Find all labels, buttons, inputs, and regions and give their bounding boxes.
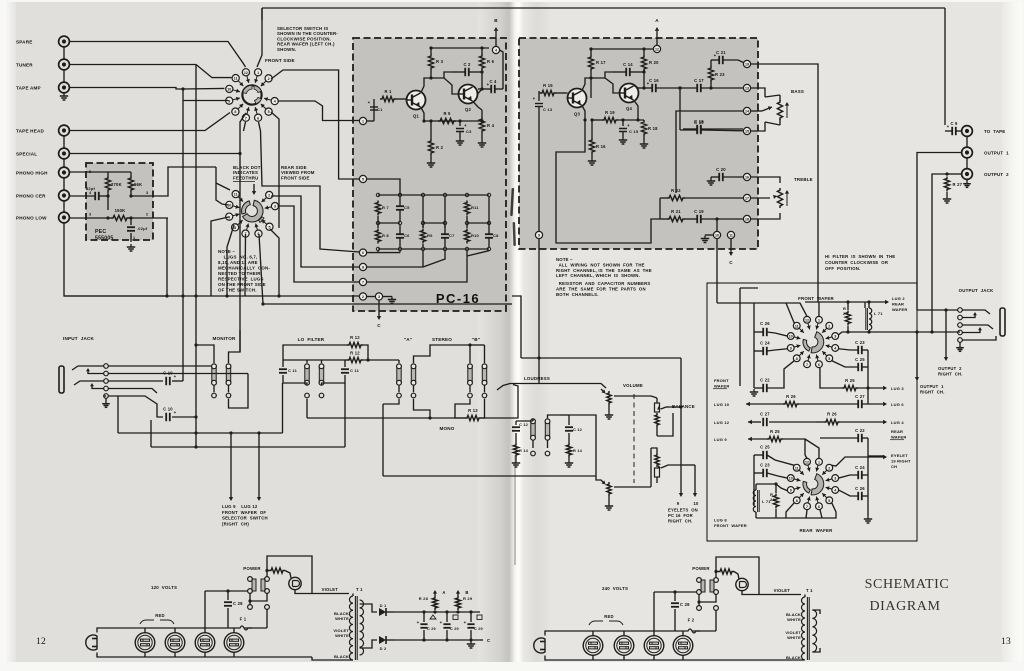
label OUTPUT 1 RIGHT CH arrow bbox=[916, 332, 918, 378]
ac plug right bbox=[534, 638, 545, 653]
svg-text:C 23: C 23 bbox=[855, 340, 865, 345]
bus y296 right page stub bbox=[512, 296, 521, 358]
capacitor C22 row to eyelet bbox=[832, 457, 884, 466]
svg-text:LUG 6: LUG 6 bbox=[891, 402, 904, 407]
capacitor C5 bbox=[396, 205, 404, 207]
svg-text:2: 2 bbox=[362, 295, 364, 299]
wire rear lug3 to PC-16 lug7 bbox=[278, 206, 360, 282]
wire rear lug6 down bbox=[259, 234, 263, 304]
wire lug4 to C23 bbox=[839, 349, 858, 350]
svg-text:C 25: C 25 bbox=[855, 357, 865, 362]
wire power loop left bbox=[267, 556, 312, 594]
svg-text:OUTPUT 1: OUTPUT 1 bbox=[920, 384, 944, 389]
svg-text:FRONT WAFER: FRONT WAFER bbox=[798, 296, 834, 301]
wire pin2 exit right down to bus bbox=[166, 218, 168, 296]
resistor R15 bbox=[540, 90, 556, 95]
svg-text:C8: C8 bbox=[493, 233, 499, 238]
capacitor C29 c bbox=[467, 623, 474, 625]
svg-text:PC 16 FOR: PC 16 FOR bbox=[668, 513, 693, 518]
svg-text:F 2: F 2 bbox=[688, 618, 695, 623]
svg-text:A: A bbox=[442, 590, 445, 595]
svg-text:SHOWN.: SHOWN. bbox=[277, 47, 296, 52]
wire lug14 treble feed column bbox=[676, 111, 743, 193]
wire selector lug6 stub bbox=[259, 122, 261, 131]
svg-text:PC-16: PC-16 bbox=[436, 291, 480, 306]
capacitor C14 bbox=[625, 68, 627, 76]
wire rear lug11 up bbox=[216, 183, 230, 190]
loudness extra contacts bbox=[531, 451, 536, 456]
wire Q4 collector to C16 bbox=[634, 86, 638, 89]
svg-text:6: 6 bbox=[257, 116, 259, 120]
svg-text:+: + bbox=[464, 620, 467, 625]
rectifier bus bottom bbox=[394, 639, 480, 641]
wire TAPE HEAD row bbox=[70, 113, 230, 131]
PC-16 circuit board region (left page) bbox=[353, 38, 506, 311]
bus y304 fold crossing bbox=[506, 303, 512, 305]
ground volume lower bbox=[608, 503, 610, 506]
svg-text:NECTED TO THEIR: NECTED TO THEIR bbox=[218, 271, 261, 276]
wire lug 9 left bbox=[183, 100, 229, 102]
capacitor C26 lower bbox=[857, 492, 859, 500]
svg-text:1: 1 bbox=[818, 318, 820, 322]
PC-16 circuit board region (right page) bbox=[519, 38, 758, 249]
svg-text:R 26: R 26 bbox=[786, 394, 796, 399]
wire switch bottoms A bbox=[398, 385, 400, 392]
svg-text:C6: C6 bbox=[404, 233, 410, 238]
svg-text:INPUT JACK: INPUT JACK bbox=[63, 336, 95, 341]
svg-text:D 1: D 1 bbox=[380, 603, 387, 608]
capacitor C23 lower bbox=[762, 469, 764, 477]
svg-text:.02μf: .02μf bbox=[137, 226, 148, 231]
wire lo filter frame bbox=[283, 359, 345, 361]
wire Q3 base from R15 bbox=[538, 91, 540, 93]
wire TUNER to selector bbox=[70, 65, 231, 78]
rectifier bus top bbox=[394, 611, 480, 613]
svg-text:FRONT SIDE: FRONT SIDE bbox=[265, 58, 295, 63]
svg-text:C 14: C 14 bbox=[623, 62, 633, 67]
jack OUTPUT 2 bbox=[962, 169, 973, 180]
wire Q2 emitter to R4 bbox=[473, 102, 482, 111]
capacitor C8 bbox=[485, 233, 493, 235]
svg-text:OUTPUT 2: OUTPUT 2 bbox=[984, 172, 1009, 177]
wire input row3 with C10 bbox=[108, 380, 163, 382]
svg-text:3: 3 bbox=[378, 295, 380, 299]
resistor power loop right bbox=[718, 569, 734, 574]
svg-text:FEEDTHRU: FEEDTHRU bbox=[233, 175, 259, 180]
wire lug9 column bbox=[538, 118, 540, 231]
selector front lug 7 bbox=[247, 107, 249, 114]
input jack contacts bbox=[104, 364, 109, 369]
rc network mid rail 1 bbox=[378, 222, 400, 224]
ground below TAPE AMP bbox=[63, 93, 65, 96]
jack PHONO CER bbox=[59, 190, 70, 201]
svg-text:REAR WAFER: REAR WAFER bbox=[800, 528, 834, 533]
wire monitor bottoms bbox=[213, 385, 215, 392]
wire R5 row bbox=[424, 120, 482, 122]
tube V5 bbox=[583, 636, 603, 656]
svg-text:4: 4 bbox=[834, 489, 836, 493]
svg-text:C 24: C 24 bbox=[760, 341, 770, 346]
svg-text:+: + bbox=[947, 124, 950, 129]
capacitor .02uf bbox=[127, 226, 135, 228]
svg-text:RESPECTIVE LUGS: RESPECTIVE LUGS bbox=[218, 277, 264, 282]
PEC 555005 module box bbox=[86, 163, 153, 240]
svg-text:WHITE: WHITE bbox=[787, 617, 801, 622]
svg-text:C 29: C 29 bbox=[427, 627, 436, 631]
balance pot lower bbox=[655, 453, 659, 467]
resistor R27 bbox=[947, 173, 962, 175]
row R26 lower to LUG 4 bbox=[824, 419, 840, 424]
wire rear lug9 left down bbox=[211, 217, 229, 296]
svg-text:11: 11 bbox=[234, 193, 238, 197]
capacitor 82pf bbox=[94, 192, 96, 200]
jack PHONO HIGH bbox=[59, 167, 70, 178]
wire lug9 down to loudness rail bbox=[538, 239, 540, 358]
svg-text:COUNTER CLOCKWISE OR: COUNTER CLOCKWISE OR bbox=[825, 260, 889, 265]
wire tube top bus left bbox=[97, 628, 236, 633]
svg-text:WHITE: WHITE bbox=[787, 635, 801, 640]
svg-text:13: 13 bbox=[1001, 637, 1011, 647]
capacitor C24 upper bbox=[762, 347, 764, 355]
svg-text:LUG 9: LUG 9 bbox=[714, 437, 727, 442]
selector rear lug 3 bbox=[265, 207, 272, 208]
selector front lug 10 bbox=[233, 90, 240, 92]
svg-text:12: 12 bbox=[805, 460, 809, 464]
svg-text:TAPE HEAD: TAPE HEAD bbox=[16, 129, 44, 134]
svg-text:SELECTOR SWITCH: SELECTOR SWITCH bbox=[222, 516, 268, 521]
svg-text:9: 9 bbox=[790, 347, 792, 351]
ground C22 bbox=[753, 389, 755, 392]
wire balance top from rail bbox=[669, 358, 681, 407]
wire SPECIAL row bbox=[70, 113, 246, 154]
wafer lug 8 bbox=[799, 493, 803, 497]
svg-text:D 2: D 2 bbox=[380, 646, 387, 651]
resistor power loop left bbox=[269, 568, 285, 573]
resistor R28 bbox=[432, 596, 437, 610]
svg-text:+: + bbox=[647, 81, 650, 86]
selector rear lug 6 bbox=[256, 223, 258, 230]
svg-text:8: 8 bbox=[796, 499, 798, 503]
bus y433 bbox=[118, 432, 283, 434]
wafer lug 2 bbox=[822, 328, 826, 332]
svg-text:SPECIAL: SPECIAL bbox=[16, 152, 37, 157]
wire balance lower to eyelets bbox=[680, 407, 682, 494]
rc network mid rail 2 bbox=[423, 222, 445, 224]
wire input row1 bbox=[108, 365, 211, 367]
svg-text:WAFER: WAFER bbox=[891, 435, 906, 440]
jack PHONO LOW bbox=[59, 212, 70, 223]
resistor 56K bbox=[128, 176, 133, 192]
lug 12 right page bbox=[653, 45, 660, 52]
selector front lug 9 bbox=[233, 98, 240, 100]
tube V1 bbox=[135, 633, 155, 653]
wire front wafer lug1 up bbox=[818, 302, 820, 316]
capacitor C7 bbox=[441, 233, 449, 235]
lug 1 on PC-16 bbox=[359, 117, 366, 124]
svg-text:BOTH CHANNELS.: BOTH CHANNELS. bbox=[556, 292, 599, 297]
svg-text:VIOLET: VIOLET bbox=[322, 587, 339, 592]
svg-text:LUG 9 LUG 12: LUG 9 LUG 12 bbox=[222, 504, 258, 509]
wire mono bus bbox=[430, 417, 465, 419]
wafer lug 3 bbox=[826, 337, 832, 339]
rc network mid rail 3 bbox=[467, 222, 489, 224]
wire output1 left bbox=[917, 153, 962, 311]
svg-text:3: 3 bbox=[834, 477, 836, 481]
svg-text:C1: C1 bbox=[377, 107, 383, 112]
svg-text:6: 6 bbox=[362, 251, 364, 255]
resistor R18 bbox=[641, 120, 646, 136]
label C below lug3 wire bbox=[378, 300, 380, 317]
svg-text:WHITE: WHITE bbox=[335, 616, 349, 621]
capacitor C9 bbox=[951, 127, 953, 135]
wire lower wafer left links bbox=[756, 483, 776, 485]
resistor R17 bbox=[588, 55, 593, 71]
wire C23 C25 right bus bbox=[862, 349, 868, 351]
svg-text:C 11: C 11 bbox=[288, 368, 298, 373]
wire jack column links bbox=[63, 47, 65, 59]
tube V8 bbox=[673, 636, 693, 656]
svg-text:5: 5 bbox=[268, 225, 270, 229]
bass pot bbox=[751, 88, 765, 97]
svg-text:RIGHT CH.: RIGHT CH. bbox=[668, 519, 693, 524]
rc network top rail bbox=[378, 194, 489, 196]
svg-text:C 16: C 16 bbox=[649, 78, 659, 83]
wire rear lug2 to PC-16 lug8 bbox=[271, 196, 359, 267]
svg-text:C 10: C 10 bbox=[163, 371, 173, 376]
wire 120v tap bbox=[204, 591, 206, 628]
svg-text:R 5: R 5 bbox=[443, 111, 451, 116]
hi filter front wafer bbox=[811, 332, 824, 353]
ground R4 bbox=[481, 140, 483, 143]
volume pot lower bbox=[607, 482, 611, 496]
svg-text:+: + bbox=[368, 100, 371, 105]
wire inner vertical right page bbox=[739, 288, 741, 386]
lo filter switch bbox=[305, 368, 309, 382]
wire bottom rail from lug3 bbox=[838, 332, 960, 335]
svg-text:R 22: R 22 bbox=[671, 188, 681, 193]
svg-text:13: 13 bbox=[745, 87, 749, 91]
wire C23 to wafer2 lug10 bbox=[767, 473, 787, 478]
svg-text:RESISTOR AND CAPACITOR NUMB: RESISTOR AND CAPACITOR NUMBERS bbox=[556, 281, 650, 286]
svg-text:150K: 150K bbox=[115, 208, 126, 213]
wire wafer2 lug3 to C24 bbox=[839, 475, 858, 478]
svg-text:24: 24 bbox=[843, 311, 848, 316]
capacitor C16 bbox=[651, 84, 653, 92]
wafer lug 6 bbox=[816, 355, 818, 361]
svg-text:1: 1 bbox=[257, 71, 259, 75]
wire lug6 to R25 bbox=[820, 367, 842, 388]
svg-text:8: 8 bbox=[234, 110, 236, 114]
svg-text:5: 5 bbox=[362, 178, 364, 182]
svg-text:RED: RED bbox=[155, 613, 164, 618]
wire bottom rail lower bbox=[756, 517, 813, 519]
svg-text:18: 18 bbox=[745, 218, 749, 222]
tube V4 bbox=[224, 633, 244, 653]
tube V3 bbox=[195, 633, 215, 653]
svg-text:3: 3 bbox=[834, 335, 836, 339]
svg-text:19: 19 bbox=[745, 63, 749, 67]
wire balance mid link bbox=[657, 413, 673, 436]
svg-text:ARE THE SAME FOR THE PART: ARE THE SAME FOR THE PARTS ON bbox=[556, 286, 646, 291]
jack TUNER bbox=[59, 59, 70, 70]
wire loudness rail bbox=[497, 384, 606, 391]
svg-text:6: 6 bbox=[818, 363, 820, 367]
svg-text:C 23: C 23 bbox=[760, 463, 770, 468]
wire TAPE AMP to selector lug 10 bbox=[70, 88, 183, 90]
selector front lug 6 bbox=[255, 107, 257, 114]
svg-text:+: + bbox=[440, 620, 443, 625]
svg-text:C 29: C 29 bbox=[474, 627, 483, 631]
svg-text:R9: R9 bbox=[427, 233, 433, 238]
output jack contacts bbox=[958, 308, 963, 313]
svg-text:R 23: R 23 bbox=[715, 72, 725, 77]
ground lug10 bbox=[705, 234, 713, 236]
svg-text:5: 5 bbox=[828, 357, 830, 361]
svg-text:10: 10 bbox=[789, 477, 793, 481]
wafer lug 11 bbox=[799, 470, 803, 474]
wire pin3 riser to rear lug11 bbox=[215, 167, 217, 183]
svg-text:C 9: C 9 bbox=[950, 121, 958, 126]
svg-text:POWER: POWER bbox=[692, 566, 710, 571]
svg-text:1: 1 bbox=[818, 460, 820, 464]
wire drop to LUG 12 arrow bbox=[258, 433, 260, 498]
jack SPARE bbox=[59, 36, 70, 47]
jack TAPE HEAD bbox=[59, 125, 70, 136]
tube V2 bbox=[165, 633, 185, 653]
wire q3 emitter feedback loop bbox=[556, 120, 660, 243]
ground at lug3 bbox=[383, 296, 392, 298]
wafer lug 10 bbox=[794, 337, 800, 339]
ground output2 bbox=[966, 180, 968, 182]
selector rear wafer ring bbox=[243, 200, 264, 222]
svg-text:R 4: R 4 bbox=[487, 123, 495, 128]
svg-text:+: + bbox=[714, 53, 717, 58]
bus y304 bbox=[263, 303, 506, 305]
lug 19 bbox=[743, 60, 750, 67]
wire C24 C26 right bus ground bbox=[862, 474, 868, 476]
label C arrow left supply bbox=[480, 639, 483, 641]
resistor R14 right bbox=[566, 443, 571, 457]
svg-text:R 15: R 15 bbox=[543, 83, 553, 88]
capacitor C26 upper bbox=[762, 328, 764, 336]
svg-text:OUTPUT 2: OUTPUT 2 bbox=[938, 366, 962, 371]
wire lug10 down to wafer box bbox=[716, 239, 718, 303]
svg-text:2: 2 bbox=[828, 324, 830, 328]
svg-text:4: 4 bbox=[274, 100, 276, 104]
svg-text:BLACK: BLACK bbox=[786, 655, 801, 660]
svg-text:+: + bbox=[174, 410, 177, 415]
tube V6 bbox=[614, 636, 634, 656]
capacitor C27 right bbox=[857, 400, 859, 408]
selector rear lug 10 bbox=[233, 206, 240, 208]
wire selector lug1 up bbox=[257, 8, 262, 67]
svg-text:+: + bbox=[464, 123, 467, 128]
svg-text:15: 15 bbox=[745, 130, 749, 134]
lug 18 bbox=[743, 215, 750, 222]
capacitor C10 upper bbox=[165, 377, 167, 385]
svg-text:A: A bbox=[655, 18, 659, 23]
wire lug11 down arrow C bbox=[730, 239, 732, 253]
wafer lug 10 bbox=[794, 479, 800, 481]
capacitor C23 upper bbox=[857, 346, 859, 354]
wire top balance rail bbox=[521, 357, 681, 359]
svg-text:OF THE SWITCH.: OF THE SWITCH. bbox=[218, 288, 257, 293]
wire lug5 to C25 bbox=[832, 361, 858, 367]
svg-text:EYELETS ON: EYELETS ON bbox=[668, 508, 698, 513]
bus y447 bbox=[151, 446, 345, 448]
capacitor C19 lower bbox=[696, 215, 698, 223]
wire A lower routing bbox=[383, 399, 399, 404]
svg-text:R 12: R 12 bbox=[350, 351, 360, 356]
capacitor C12 right bbox=[565, 426, 573, 428]
wafer lug 4 bbox=[826, 345, 832, 347]
wire secondary taps to diodes bbox=[360, 604, 377, 612]
svg-text:MECHANICALLY CON-: MECHANICALLY CON- bbox=[218, 266, 270, 271]
selector rear lug 11 bbox=[238, 197, 243, 202]
svg-text:R11: R11 bbox=[471, 205, 479, 210]
wafer lug 7 bbox=[808, 497, 810, 503]
svg-text:C 29: C 29 bbox=[450, 627, 459, 631]
wire wafer2 lug8 left bbox=[786, 503, 794, 518]
svg-text:FRONT WAFER OF: FRONT WAFER OF bbox=[222, 510, 266, 515]
svg-text:C 28: C 28 bbox=[680, 602, 690, 607]
ground rectifier bbox=[470, 641, 472, 644]
transistor Q4 bbox=[620, 84, 639, 103]
svg-text:C 12: C 12 bbox=[573, 427, 583, 432]
A switch bbox=[397, 368, 401, 382]
svg-text:BLACK: BLACK bbox=[334, 654, 349, 659]
resistor R21 bbox=[667, 216, 685, 221]
svg-text:+: + bbox=[417, 620, 420, 625]
svg-text:ALL WIRING NOT SHOWN FOR: ALL WIRING NOT SHOWN FOR THE bbox=[556, 262, 645, 267]
wire switch bottoms B bbox=[469, 385, 471, 392]
svg-text:LUG 4: LUG 4 bbox=[891, 420, 904, 425]
secondary T1 right small bbox=[812, 610, 816, 652]
svg-text:C5: C5 bbox=[404, 205, 410, 210]
lug 3 on PC-16 bbox=[375, 293, 382, 300]
capacitor C13 bbox=[539, 92, 540, 94]
svg-text:C 26: C 26 bbox=[760, 321, 770, 326]
svg-text:12: 12 bbox=[655, 48, 659, 52]
ac plug left bbox=[86, 635, 97, 650]
tube V7 bbox=[644, 636, 664, 656]
svg-text:3: 3 bbox=[274, 205, 276, 209]
wire bus433 riser to C11 left bbox=[282, 383, 284, 433]
wire selector lug2 to PC-16 lug5 bbox=[271, 70, 359, 179]
svg-text:OUTPUT 1: OUTPUT 1 bbox=[984, 151, 1009, 156]
selector front lug 5 bbox=[261, 104, 266, 109]
balance pot upper bbox=[655, 403, 660, 412]
svg-text:C: C bbox=[377, 323, 381, 328]
svg-text:R 14: R 14 bbox=[573, 448, 583, 453]
hi filter rear wafer bbox=[811, 474, 824, 495]
output jack plug body bbox=[1000, 308, 1005, 336]
capacitor C25 lower bbox=[762, 451, 764, 459]
ground volume upper bbox=[608, 412, 610, 415]
svg-text:LUG 10: LUG 10 bbox=[714, 402, 730, 407]
selector front lug 4 bbox=[264, 98, 271, 100]
lug 6 on PC-16 bbox=[359, 249, 366, 256]
svg-text:LOUDNESS: LOUDNESS bbox=[524, 376, 550, 381]
svg-text:PHONO CER: PHONO CER bbox=[16, 194, 46, 199]
svg-text:R 7: R 7 bbox=[382, 205, 389, 210]
jack OUTPUT 1 bbox=[962, 147, 973, 158]
capacitor C20 bbox=[718, 173, 720, 181]
capacitor C29 a bbox=[420, 623, 427, 625]
svg-text:24: 24 bbox=[770, 497, 775, 502]
selector front lug 1 bbox=[255, 76, 257, 83]
svg-text:DIAGRAM: DIAGRAM bbox=[869, 599, 940, 614]
